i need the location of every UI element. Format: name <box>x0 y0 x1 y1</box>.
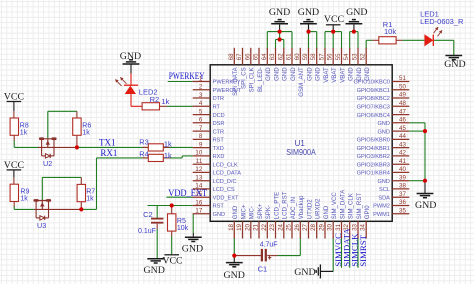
svg-text:64: 64 <box>261 53 268 60</box>
svg-text:68: 68 <box>228 53 235 60</box>
svg-text:54: 54 <box>343 53 350 60</box>
svg-text:U1: U1 <box>295 139 306 148</box>
svg-text:58: 58 <box>310 53 317 60</box>
svg-text:13: 13 <box>195 175 202 182</box>
svg-text:65: 65 <box>253 53 260 60</box>
svg-text:ADC_IN: ADC_IN <box>290 197 297 219</box>
svg-text:UTXD2: UTXD2 <box>306 199 313 220</box>
svg-text:GND: GND <box>377 121 389 127</box>
svg-text:URXD2: URXD2 <box>315 198 322 219</box>
svg-text:4.7uF: 4.7uF <box>260 242 278 249</box>
svg-text:41: 41 <box>399 158 406 165</box>
svg-text:DSR: DSR <box>213 121 225 127</box>
svg-text:C1: C1 <box>258 264 268 273</box>
svg-text:RXD: RXD <box>213 154 225 160</box>
svg-text:19: 19 <box>236 223 243 230</box>
svg-text:RST: RST <box>213 204 225 210</box>
svg-text:1k: 1k <box>20 129 28 136</box>
svg-text:VCC: VCC <box>162 256 183 267</box>
svg-text:VCC: VCC <box>4 91 25 102</box>
svg-text:62: 62 <box>277 53 284 60</box>
svg-text:GND: GND <box>377 179 389 185</box>
svg-text:8: 8 <box>199 133 203 140</box>
svg-text:Vbackup: Vbackup <box>298 195 305 219</box>
svg-text:GND: GND <box>223 270 244 281</box>
svg-text:LCD_RST: LCD_RST <box>282 191 289 219</box>
svg-text:GND: GND <box>269 7 290 18</box>
svg-text:RST: RST <box>213 138 225 144</box>
svg-text:38: 38 <box>399 183 406 190</box>
svg-text:R3: R3 <box>139 138 148 147</box>
svg-text:16: 16 <box>195 199 202 206</box>
svg-text:GND: GND <box>282 67 289 81</box>
svg-text:61: 61 <box>286 53 293 60</box>
svg-text:21: 21 <box>253 223 260 230</box>
svg-text:GND: GND <box>356 67 363 81</box>
svg-text:10: 10 <box>195 150 202 157</box>
svg-text:C2: C2 <box>143 210 153 219</box>
svg-text:GND: GND <box>265 67 272 81</box>
svg-text:SIM900A: SIM900A <box>286 148 316 157</box>
svg-text:GND: GND <box>323 205 330 219</box>
svg-text:GND: GND <box>444 59 465 70</box>
svg-text:30: 30 <box>327 223 334 230</box>
svg-text:28: 28 <box>310 223 317 230</box>
svg-text:26: 26 <box>294 223 301 230</box>
svg-text:17: 17 <box>195 208 202 215</box>
svg-text:BL_LED-: BL_LED- <box>257 67 264 92</box>
svg-text:GND: GND <box>294 267 315 278</box>
svg-text:GPIO5/KBR0: GPIO5/KBR0 <box>357 138 390 144</box>
svg-text:34: 34 <box>360 223 367 230</box>
svg-text:49: 49 <box>399 92 406 99</box>
svg-text:GSM_ANT: GSM_ANT <box>298 67 305 97</box>
svg-text:MIC-: MIC- <box>249 206 256 219</box>
svg-text:LCD_PTE: LCD_PTE <box>273 192 280 219</box>
svg-text:57: 57 <box>319 53 326 60</box>
svg-text:39: 39 <box>399 174 406 181</box>
svg-text:1k: 1k <box>82 129 90 136</box>
svg-text:29: 29 <box>319 223 326 230</box>
svg-text:GND: GND <box>290 67 297 81</box>
svg-text:23: 23 <box>269 223 276 230</box>
svg-text:U3: U3 <box>37 221 46 230</box>
svg-text:LCD_CS: LCD_CS <box>213 187 235 193</box>
svg-text:VBAT: VBAT <box>323 67 330 83</box>
svg-text:R6: R6 <box>82 122 91 129</box>
svg-text:SDA: SDA <box>378 195 390 201</box>
svg-text:20: 20 <box>244 223 251 230</box>
svg-text:45: 45 <box>399 125 406 132</box>
svg-text:RT: RT <box>213 105 221 111</box>
svg-text:SCL: SCL <box>379 187 390 193</box>
svg-text:GND: GND <box>306 67 313 81</box>
svg-text:48: 48 <box>399 100 406 107</box>
svg-text:SPK-: SPK- <box>265 205 272 219</box>
svg-text:35: 35 <box>399 207 406 214</box>
svg-text:VDD_EXT: VDD_EXT <box>213 195 239 201</box>
svg-text:59: 59 <box>302 53 309 60</box>
svg-text:SIM_RST: SIM_RST <box>356 193 363 220</box>
svg-text:SPI_DATA: SPI_DATA <box>232 66 239 95</box>
svg-text:1k: 1k <box>161 97 169 106</box>
svg-text:1k: 1k <box>164 151 172 160</box>
svg-text:44: 44 <box>399 133 406 140</box>
svg-text:2: 2 <box>199 84 203 91</box>
svg-text:GND: GND <box>364 67 371 81</box>
svg-text:GPIO4/KBR1: GPIO4/KBR1 <box>357 146 390 152</box>
svg-text:3: 3 <box>199 92 203 99</box>
svg-text:GND: GND <box>346 7 367 18</box>
svg-text:1k: 1k <box>164 140 172 149</box>
svg-text:R5: R5 <box>177 218 186 225</box>
svg-text:GPIO3/KBR2: GPIO3/KBR2 <box>357 154 390 160</box>
svg-text:24: 24 <box>277 223 284 230</box>
svg-text:GND: GND <box>213 212 225 218</box>
svg-text:9: 9 <box>199 141 203 148</box>
svg-text:PWM2: PWM2 <box>373 204 390 210</box>
svg-text:R4: R4 <box>139 150 148 159</box>
svg-text:R8: R8 <box>20 122 29 129</box>
svg-text:LCD_D/C: LCD_D/C <box>213 179 237 185</box>
svg-text:6: 6 <box>199 117 203 124</box>
svg-text:R7: R7 <box>86 189 95 196</box>
svg-text:25: 25 <box>286 223 293 230</box>
svg-text:56: 56 <box>327 53 334 60</box>
svg-text:PWERKEY: PWERKEY <box>169 71 205 81</box>
svg-text:VDD_EXT: VDD_EXT <box>168 188 207 198</box>
svg-text:33: 33 <box>352 223 359 230</box>
svg-text:DTR: DTR <box>213 96 225 102</box>
svg-text:36: 36 <box>399 199 406 206</box>
svg-text:DCD: DCD <box>213 113 225 119</box>
svg-text:PWM1: PWM1 <box>373 212 390 218</box>
svg-text:R9: R9 <box>20 189 29 196</box>
svg-text:GND: GND <box>120 51 141 62</box>
svg-text:RX1: RX1 <box>100 148 117 158</box>
svg-text:GND: GND <box>377 129 389 135</box>
svg-text:GPIO7/KBC3: GPIO7/KBC3 <box>357 105 390 111</box>
svg-text:LCD_DATA: LCD_DATA <box>213 171 242 177</box>
svg-text:LCD_CLK: LCD_CLK <box>213 162 238 168</box>
svg-text:12: 12 <box>195 166 202 173</box>
svg-text:VBAT: VBAT <box>339 67 346 83</box>
svg-text:40: 40 <box>399 166 406 173</box>
svg-text:46: 46 <box>399 117 406 124</box>
svg-text:55: 55 <box>335 53 342 60</box>
svg-text:GPIO1/KBR4: GPIO1/KBR4 <box>357 171 390 177</box>
svg-text:53: 53 <box>352 53 359 60</box>
svg-text:37: 37 <box>399 191 406 198</box>
svg-text:GPIO6/KBC4: GPIO6/KBC4 <box>357 113 390 119</box>
svg-text:4: 4 <box>199 100 203 107</box>
svg-text:MIC+: MIC+ <box>240 204 247 219</box>
svg-text:GND: GND <box>315 67 322 81</box>
svg-text:1k: 1k <box>20 196 28 203</box>
svg-text:SIM_DATA: SIM_DATA <box>339 189 346 220</box>
svg-text:SIMRST: SIMRST <box>358 234 368 266</box>
svg-text:67: 67 <box>236 53 243 60</box>
svg-text:GPIO2/KBR3: GPIO2/KBR3 <box>357 162 390 168</box>
svg-text:GPIO8/KBC2: GPIO8/KBC2 <box>357 96 390 102</box>
svg-text:0.1uF: 0.1uF <box>138 228 156 235</box>
svg-text:GPIO9/KBC1: GPIO9/KBC1 <box>357 88 390 94</box>
svg-text:66: 66 <box>244 53 251 60</box>
svg-text:52: 52 <box>360 53 367 60</box>
svg-text:51: 51 <box>399 75 406 82</box>
svg-text:1k: 1k <box>86 196 94 203</box>
svg-text:42: 42 <box>399 150 406 157</box>
svg-text:VBAT: VBAT <box>331 67 338 83</box>
svg-text:LED-0603_R: LED-0603_R <box>420 17 464 26</box>
svg-text:SIM_CLK: SIM_CLK <box>348 193 355 219</box>
svg-text:VCC: VCC <box>324 14 345 25</box>
svg-text:SPK+: SPK+ <box>257 203 264 219</box>
svg-text:5: 5 <box>199 108 203 115</box>
svg-text:47: 47 <box>399 108 406 115</box>
svg-text:TXD: TXD <box>213 146 224 152</box>
svg-text:U2: U2 <box>43 159 52 168</box>
svg-text:CTR: CTR <box>213 129 225 135</box>
svg-text:10k: 10k <box>384 27 396 36</box>
svg-text:SIM_VCC: SIM_VCC <box>331 192 338 220</box>
svg-text:GND: GND <box>182 244 203 255</box>
svg-text:43: 43 <box>399 141 406 148</box>
svg-text:50: 50 <box>399 84 406 91</box>
svg-text:22: 22 <box>261 223 268 230</box>
svg-text:60: 60 <box>294 53 301 60</box>
svg-text:GND: GND <box>298 7 319 18</box>
svg-text:63: 63 <box>269 53 276 60</box>
svg-text:7: 7 <box>199 125 203 132</box>
svg-text:SPI_CLK: SPI_CLK <box>249 67 256 92</box>
svg-text:27: 27 <box>302 223 309 230</box>
svg-text:GND: GND <box>273 67 280 81</box>
svg-text:GPI0: GPI0 <box>364 205 371 219</box>
svg-text:10k: 10k <box>177 225 189 232</box>
svg-text:GND: GND <box>232 205 239 219</box>
svg-text:LED2: LED2 <box>139 87 158 96</box>
svg-text:GND: GND <box>415 200 436 211</box>
svg-text:11: 11 <box>196 158 203 165</box>
svg-text:SPI_CS: SPI_CS <box>240 67 247 89</box>
svg-text:18: 18 <box>228 223 235 230</box>
svg-text:TX1: TX1 <box>99 138 116 148</box>
svg-text:GND: GND <box>143 265 164 276</box>
svg-text:GND: GND <box>348 67 355 81</box>
